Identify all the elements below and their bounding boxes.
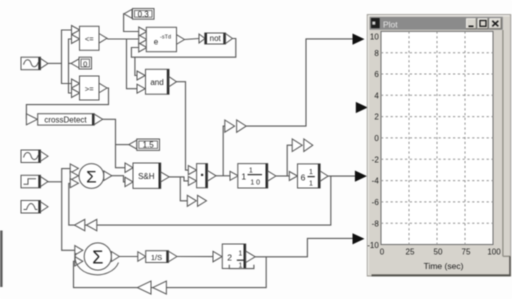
wire feedback from tf2 to upper sum [69, 176, 331, 225]
wire >= output down to crossDetect [26, 88, 108, 119]
svg-text:6: 6 [374, 70, 379, 79]
svg-text:8: 8 [374, 49, 379, 58]
svg-text:0: 0 [380, 247, 385, 256]
svg-text:S&H: S&H [138, 172, 155, 181]
plot x axis title [424, 261, 464, 271]
wire and output down to multiplier in1 [177, 82, 189, 170]
svg-text:-sTd: -sTd [160, 35, 171, 41]
feedback arrows (bottom loop) [137, 281, 166, 294]
svg-text:1: 1 [238, 250, 242, 257]
plot grid [381, 31, 493, 244]
svg-text:6: 6 [301, 173, 306, 183]
wire step source to both summing junctions [47, 169, 75, 251]
svg-text:10: 10 [370, 33, 379, 42]
svg-text:-4: -4 [372, 177, 380, 186]
integrator block 1/S [138, 251, 177, 263]
svg-text:Plot: Plot [383, 19, 398, 29]
feedback arrows (middle loop) [75, 219, 97, 230]
svg-text:-8: -8 [372, 219, 380, 228]
wire integrator output to tf3 [177, 256, 213, 258]
wire connector to plot input 1 [246, 39, 352, 126]
svg-text:and: and [150, 78, 163, 87]
sinusoid source block (unconnected) [21, 150, 48, 163]
wire tf2 output to plot input 3 [328, 175, 355, 177]
svg-text:75: 75 [462, 247, 471, 256]
plot y axis labels [367, 33, 379, 251]
close button [489, 18, 501, 28]
svg-text:-2: -2 [372, 155, 380, 164]
plot input arrow 1 [353, 34, 365, 45]
constant block 1.5 [129, 139, 160, 150]
wire vertical B (zero const to both comparators) [69, 39, 72, 93]
svg-text:Time (sec): Time (sec) [424, 261, 464, 271]
step source block [21, 175, 48, 188]
svg-text:1 0: 1 0 [250, 179, 260, 186]
time delay block e^-sTd [139, 27, 185, 52]
svg-text:1: 1 [309, 180, 313, 187]
wire lower sum output to integrator [119, 256, 137, 258]
comparator block >= [72, 76, 108, 100]
multiplier block [188, 164, 216, 188]
wire tf3 output up to plot input 4 [255, 238, 352, 256]
svg-text:0: 0 [374, 134, 379, 143]
plot input arrow 2 [356, 102, 368, 113]
svg-text:50: 50 [434, 247, 443, 256]
wire S&amp;H output to multiplier in2 and connector pair [169, 177, 188, 201]
svg-text:1: 1 [241, 172, 246, 182]
svg-text:-10: -10 [367, 241, 379, 250]
sinusoid source block (top) [21, 57, 48, 69]
svg-text:e: e [154, 38, 159, 47]
wire e^-sTd output to not [185, 39, 200, 40]
summing junction (lower) [75, 243, 120, 275]
svg-text:0.3: 0.3 [138, 10, 150, 19]
plot x axis labels [380, 247, 501, 256]
maximize button [478, 18, 488, 28]
svg-text:2: 2 [374, 113, 379, 122]
wire upper sum output to S&amp;H in2 [112, 176, 126, 182]
summing junction (upper) [70, 164, 112, 189]
constant block 0 [71, 57, 92, 69]
logic block and [137, 69, 177, 94]
svg-text:100: 100 [487, 247, 501, 256]
bracket under tf3 [229, 265, 254, 269]
wire <= output to e^-sTd and AND [107, 38, 139, 88]
minimize button [466, 18, 476, 28]
svg-text:1: 1 [309, 169, 313, 176]
svg-text:0: 0 [83, 59, 87, 68]
sample and hold block S&amp;H [125, 163, 169, 188]
svg-text:1: 1 [249, 167, 253, 174]
svg-text:not: not [210, 34, 222, 43]
plot window frame [367, 15, 510, 276]
connector arrows to plot input 1 [225, 120, 246, 132]
comparator block <= [72, 26, 108, 51]
svg-text:<=: <= [85, 35, 94, 44]
plot input arrow 3 [355, 171, 367, 182]
wire vertical A (sine to both comparators) [62, 30, 72, 84]
connector arrows (S&amp;H tap) [187, 195, 206, 206]
svg-text:Σ: Σ [92, 248, 103, 268]
svg-text:2: 2 [227, 253, 232, 263]
transfer function block 6 1/1 [289, 164, 328, 188]
svg-text:crossDetect: crossDetect [44, 116, 87, 125]
wire tf1 output to tf2 and up to connector pair 2 [276, 145, 292, 176]
constant block 0.3 [124, 9, 154, 20]
transfer function block 2 1/1 [213, 244, 255, 269]
svg-text:-6: -6 [372, 198, 380, 207]
logic block not [199, 33, 233, 44]
svg-text:Σ: Σ [86, 168, 97, 187]
plot window title bar [370, 17, 503, 30]
svg-text:1/S: 1/S [151, 253, 162, 262]
bump source block (unconnected) [21, 201, 48, 214]
svg-text:4: 4 [374, 91, 379, 100]
wire not output feedback to e^-sTd in3 and AND in1 [131, 39, 235, 76]
wire crossDetect output down to S&amp;H clock [103, 119, 125, 167]
wire multiplier output to transfer fn 1 and up to connector [216, 126, 230, 176]
wire sine1 to comparator verticals [48, 62, 62, 64]
wire feedback from tf3 to lower sum [74, 257, 267, 288]
plot input arrow 4 [353, 233, 365, 244]
wire 0.3 to e^-sTd input 1 [124, 14, 139, 32]
wire 1.5 joining crossDetect wire [116, 144, 129, 146]
grey bar left edge [0, 231, 3, 288]
crossDetect block [26, 114, 102, 125]
svg-text:1.5: 1.5 [143, 141, 155, 150]
connector arrows (tf tap) [292, 139, 313, 152]
svg-text:>=: >= [85, 85, 94, 94]
transfer function block 1 1/10 [230, 164, 276, 188]
svg-text:25: 25 [406, 247, 415, 256]
